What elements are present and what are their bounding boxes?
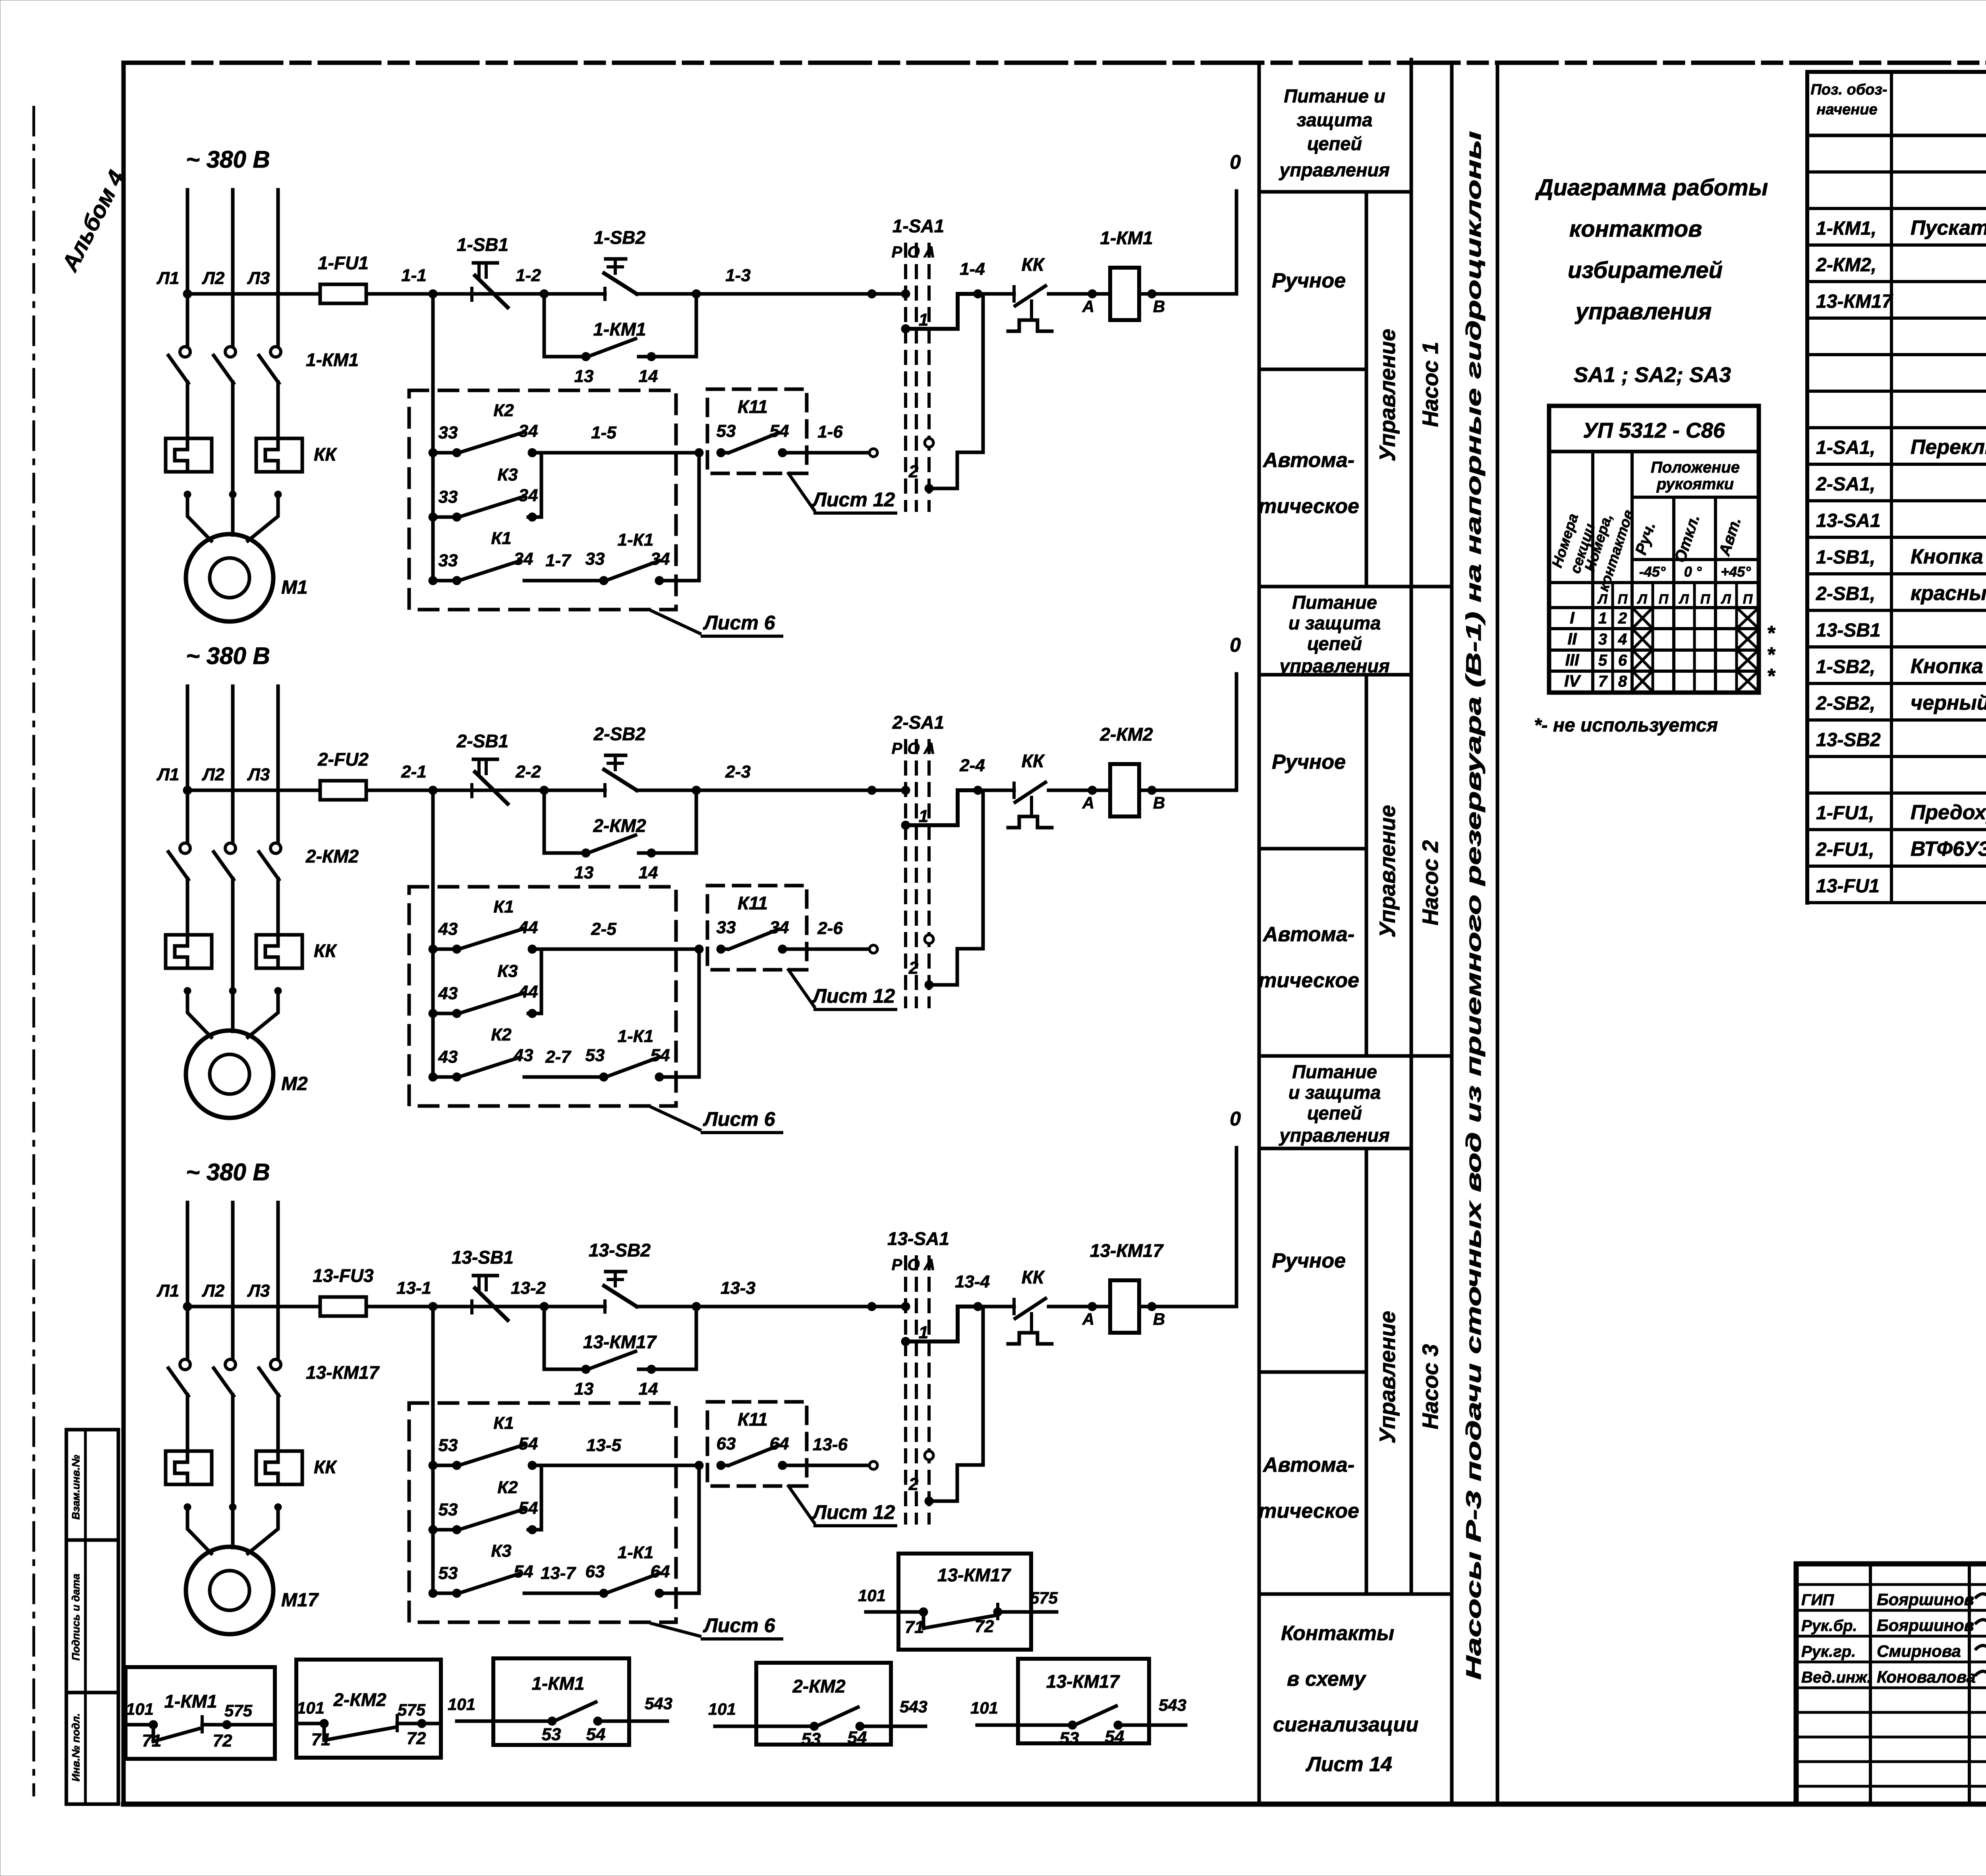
relay contact box 2-КМ2 NO 53/54	[708, 1663, 927, 1749]
svg-text:13-6: 13-6	[813, 1435, 848, 1454]
svg-text:I: I	[1570, 608, 1575, 627]
cell label: Автоматическое (pump 1)	[1258, 449, 1359, 518]
selector contact path level 1 (circuit 2)	[908, 790, 978, 825]
parts table grid	[1807, 72, 1986, 903]
svg-text:0: 0	[1230, 151, 1241, 173]
svg-text:7: 7	[1598, 673, 1608, 690]
svg-text:2-SB2,: 2-SB2,	[1816, 693, 1875, 714]
svg-text:13: 13	[574, 1379, 594, 1399]
svg-text:рукоятки: рукоятки	[1656, 475, 1734, 493]
svg-text:Л: Л	[1636, 592, 1647, 607]
wire phase L1 (circuit 2)	[186, 686, 189, 935]
svg-text:13-2: 13-2	[511, 1278, 546, 1298]
thermal relay KK heaters (circuit 1)	[166, 438, 337, 472]
contactor coil 2-КМ2 (circuit 2)	[1099, 724, 1153, 816]
svg-text:М1: М1	[281, 577, 308, 598]
relay contact box 13-КМ17 NO 53/54	[970, 1659, 1186, 1748]
svg-text:цепей: цепей	[1307, 633, 1362, 654]
svg-text:1-SB2,: 1-SB2,	[1816, 656, 1875, 677]
svg-text:13-7: 13-7	[541, 1563, 577, 1583]
svg-text:0: 0	[1230, 1108, 1241, 1130]
svg-text:1-КМ1: 1-КМ1	[593, 319, 646, 340]
node L1 (circuit 1)	[156, 268, 192, 298]
svg-text:Насос 2: Насос 2	[1418, 840, 1443, 926]
wire to neutral 0 (circuit 13)	[1235, 1148, 1238, 1307]
band column line x2	[1450, 63, 1454, 1804]
svg-text:2-КМ2,: 2-КМ2,	[1816, 255, 1876, 276]
wire 13-6 to selector (circuit 13)	[807, 1435, 877, 1469]
svg-text:44: 44	[518, 982, 538, 1002]
svg-text:1-SB1,: 1-SB1,	[1816, 547, 1875, 568]
svg-text:0 °: 0 °	[1684, 564, 1702, 580]
svg-text:Управление: Управление	[1375, 805, 1400, 938]
svg-text:Р: Р	[892, 243, 902, 261]
svg-text:2-SB1,: 2-SB1,	[1816, 583, 1875, 604]
svg-text:1-FU1: 1-FU1	[318, 253, 369, 273]
node L2 (circuit 2)	[202, 765, 225, 784]
button 2-SB1 (circuit 2)	[456, 731, 508, 804]
contactor 13-КМ17 main contacts (circuit 13)	[168, 1359, 380, 1396]
svg-text:101: 101	[297, 1698, 325, 1717]
band column left border	[1258, 63, 1261, 1804]
svg-text:Л1: Л1	[156, 765, 180, 784]
svg-text:М17: М17	[281, 1590, 319, 1611]
svg-text:13-1: 13-1	[396, 1278, 431, 1298]
junction dots below heaters (circuit 13)	[184, 1504, 282, 1511]
svg-text:43: 43	[438, 919, 458, 939]
cell label: Питание и защита цепей управления (pump 1)	[1279, 85, 1390, 180]
svg-text:В: В	[1153, 1310, 1165, 1328]
svg-text:13-КМ17: 13-КМ17	[1090, 1240, 1164, 1261]
svg-text:Бояршинов: Бояршинов	[1877, 1590, 1974, 1609]
svg-text:Лист 12: Лист 12	[812, 985, 895, 1007]
svg-text:54: 54	[519, 1434, 538, 1453]
reference label Лист 12 (circuit 2)	[788, 970, 896, 1009]
svg-text:К3: К3	[491, 1541, 512, 1561]
svg-text:1-7: 1-7	[545, 551, 572, 570]
svg-text:Пускатель магнитный: Пускатель магнитный	[1911, 216, 1986, 239]
reference label Лист 12 (circuit 1)	[788, 473, 896, 513]
svg-text:2-КМ2: 2-КМ2	[593, 815, 646, 836]
cell label: Управление (pump 3)	[1375, 1311, 1400, 1444]
wire to neutral 0 (circuit 2)	[1235, 674, 1238, 790]
motor М2 (circuit 2)	[186, 1031, 308, 1118]
svg-text:2-SB2: 2-SB2	[593, 724, 646, 744]
selector contact path level 2 (circuit 13)	[929, 1307, 983, 1501]
svg-text:*- не используется: *- не используется	[1534, 715, 1718, 736]
stamp box Инв. № подл.	[66, 1693, 118, 1804]
svg-text:1-SB2: 1-SB2	[594, 227, 646, 248]
svg-text:13-SB2: 13-SB2	[589, 1240, 651, 1260]
svg-text:2-FU1,: 2-FU1,	[1816, 839, 1874, 860]
svg-text:Диаграмма работы: Диаграмма работы	[1535, 175, 1768, 201]
svg-text:Питание и: Питание и	[1284, 85, 1385, 106]
svg-text:SA1 ; SA2; SA3: SA1 ; SA2; SA3	[1574, 363, 1731, 387]
relay contact box 2-КМ2 NC 71/72	[296, 1660, 441, 1758]
svg-text:К11: К11	[738, 893, 768, 913]
svg-text:Ручное: Ручное	[1272, 1249, 1346, 1272]
parts table rows text	[1816, 179, 1986, 897]
interlock contact К1 row1 (circuit 13)	[429, 1413, 703, 1470]
svg-text:П: П	[1618, 592, 1628, 607]
svg-text:575: 575	[398, 1700, 426, 1719]
svg-text:2-SA1: 2-SA1	[892, 712, 944, 733]
svg-text:Л2: Л2	[202, 1281, 225, 1301]
contactor coil 13-КМ17 (circuit 13)	[1090, 1240, 1164, 1333]
svg-text:Л1: Л1	[156, 268, 180, 288]
title block signatures	[1801, 1590, 1986, 1686]
svg-text:1-5: 1-5	[591, 423, 616, 442]
node 2-2 (circuit 2)	[515, 762, 549, 795]
thermal relay KK trip contact (circuit 1)	[1008, 254, 1052, 331]
svg-text:2-КМ2: 2-КМ2	[792, 1676, 845, 1697]
svg-text:Подпись и дата: Подпись и дата	[70, 1574, 82, 1661]
svg-text:цепей: цепей	[1307, 1102, 1362, 1123]
svg-text:Автома-: Автома-	[1262, 1453, 1354, 1476]
svg-text:34: 34	[770, 918, 789, 937]
cell label: Насос 1	[1418, 342, 1443, 427]
svg-text:543: 543	[1159, 1696, 1186, 1714]
svg-text:4: 4	[1618, 631, 1627, 648]
interlock contact К1 row1 (circuit 2)	[429, 897, 703, 953]
svg-text:71: 71	[311, 1730, 331, 1749]
svg-text:в схему: в схему	[1287, 1668, 1367, 1691]
svg-text:А: А	[923, 1256, 935, 1274]
svg-text:Контакты: Контакты	[1281, 1622, 1394, 1645]
svg-text:А: А	[1082, 1310, 1094, 1328]
svg-text:КК: КК	[314, 940, 337, 961]
node L1 (circuit 2)	[156, 765, 192, 795]
button 2-SB2 (circuit 2)	[593, 724, 646, 796]
svg-text:К3: К3	[497, 961, 518, 981]
interlock contacts К1 and 1-К1 row3 (circuit 1)	[429, 453, 699, 585]
svg-text:Управление: Управление	[1375, 329, 1400, 461]
dashed box (Лист 6) interlock contacts (circuit 2)	[409, 887, 676, 1106]
svg-text:К3: К3	[497, 465, 518, 484]
wire phase L3 (circuit 1)	[276, 190, 280, 438]
dashed box К11 contact (circuit 1)	[707, 389, 807, 473]
svg-text:тическое: тическое	[1258, 1500, 1359, 1523]
auxiliary self-hold contact 1-КМ1 (circuit 1)	[544, 290, 701, 386]
motor feed wires (circuit 1)	[187, 494, 278, 541]
svg-text:Кнопка КЕ011УЗ, исп.4, толкате: Кнопка КЕ011УЗ, исп.4, толкатель	[1911, 655, 1986, 678]
interlock contacts К2 and 1-К1 row3 (circuit 2)	[429, 949, 699, 1081]
svg-text:1-1: 1-1	[401, 266, 427, 285]
svg-text:П: П	[1743, 592, 1753, 607]
svg-text:~ 380 В: ~ 380 В	[186, 1159, 270, 1185]
svg-text:О: О	[907, 740, 920, 757]
cell label: Питание и защита цепей управления (pump 2)	[1279, 592, 1390, 676]
svg-text:К2: К2	[493, 401, 514, 420]
svg-text:и защита: и защита	[1289, 612, 1381, 633]
svg-text:КК: КК	[1022, 751, 1045, 771]
svg-text:2-2: 2-2	[515, 762, 541, 782]
svg-text:сигнализации: сигнализации	[1273, 1713, 1418, 1736]
svg-text:53: 53	[1060, 1729, 1079, 1748]
svg-text:1-4: 1-4	[960, 259, 985, 279]
node 13-2 (circuit 13)	[511, 1278, 549, 1311]
selector switch 13-SA1 (circuit 13)	[887, 1228, 949, 1523]
svg-text:2: 2	[1618, 610, 1627, 627]
svg-text:Лист 14: Лист 14	[1305, 1753, 1392, 1776]
svg-text:54: 54	[848, 1728, 867, 1747]
node B (circuit 2)	[1148, 786, 1165, 812]
svg-text:управления: управления	[1279, 655, 1390, 676]
svg-text:101: 101	[448, 1695, 475, 1714]
bus terminal dot before selector (circuit 13)	[867, 1302, 876, 1311]
svg-text:Насосы Р-3 подачи сточных вод: Насосы Р-3 подачи сточных вод из приемно…	[1462, 131, 1486, 1680]
node 1-2 (circuit 1)	[516, 266, 549, 298]
node L3 (circuit 2)	[247, 765, 270, 784]
node 2-1 (circuit 2)	[401, 762, 437, 795]
svg-text:34: 34	[514, 549, 533, 569]
svg-text:3: 3	[1598, 631, 1607, 648]
svg-text:34: 34	[519, 421, 538, 441]
selector contact path level 2 (circuit 1)	[929, 294, 983, 488]
svg-text:53: 53	[717, 421, 736, 441]
fuse 1-FU1 (circuit 1)	[318, 253, 369, 303]
thermal relay KK trip contact (circuit 2)	[1008, 751, 1052, 828]
junction dots below heaters (circuit 1)	[184, 491, 282, 498]
svg-text:КК: КК	[314, 1457, 337, 1477]
interlock contacts К3 and 1-К1 row3 (circuit 13)	[429, 1465, 699, 1598]
svg-text:575: 575	[224, 1701, 253, 1720]
svg-text:II: II	[1567, 629, 1577, 648]
cell: Контакты в схему сигнализации лист 14	[1259, 1594, 1452, 1776]
svg-text:Лист 12: Лист 12	[812, 488, 895, 511]
wire phase L1 (circuit 1)	[186, 190, 189, 438]
album note: Альбом 4	[56, 166, 129, 276]
stamp box Взам. инв. №	[66, 1430, 118, 1540]
control bus wire (circuit 13)	[187, 1305, 1236, 1309]
svg-text:Л: Л	[1597, 592, 1607, 607]
svg-text:П: П	[1700, 592, 1711, 607]
svg-text:13-SB2: 13-SB2	[1816, 730, 1881, 751]
svg-text:Питание: Питание	[1292, 1061, 1377, 1082]
svg-text:33: 33	[439, 551, 458, 570]
terminal 0 label (circuit 2)	[1230, 634, 1241, 656]
junction dots below heaters (circuit 2)	[184, 987, 282, 994]
svg-text:72: 72	[407, 1729, 426, 1748]
heading: SA1 ; SA2; SA3	[1574, 363, 1731, 387]
svg-text:контактов: контактов	[1569, 216, 1702, 242]
svg-text:543: 543	[645, 1694, 672, 1713]
wire phase L3 (circuit 2)	[276, 686, 280, 935]
svg-text:1-2: 1-2	[516, 266, 541, 285]
button 1-SB2 (circuit 1)	[594, 227, 646, 299]
node 2-4 (circuit 2)	[959, 756, 985, 795]
svg-text:ВТФ6УЗ, ТУ16- 521, 037-75: ВТФ6УЗ, ТУ16- 521, 037-75	[1911, 838, 1986, 861]
svg-text:Л: Л	[1678, 592, 1689, 607]
svg-text:54: 54	[514, 1562, 533, 1581]
node A (circuit 2)	[1082, 786, 1097, 812]
svg-text:1: 1	[919, 310, 928, 330]
svg-text:2-КМ2: 2-КМ2	[305, 846, 359, 867]
wire SB1 to node 1-2 (circuit 1)	[505, 292, 544, 296]
motor М1 (circuit 1)	[186, 534, 308, 621]
svg-text:2-7: 2-7	[545, 1047, 572, 1067]
thermal relay KK heaters (circuit 13)	[166, 1451, 337, 1484]
svg-text:А: А	[1082, 793, 1094, 812]
auxiliary self-hold contact 13-КМ17 (circuit 13)	[544, 1302, 701, 1399]
reference label Лист 12 (circuit 13)	[788, 1486, 896, 1526]
svg-text:Насос 1: Насос 1	[1418, 342, 1443, 427]
svg-text:63: 63	[717, 1434, 736, 1453]
svg-text:13-SB1: 13-SB1	[1816, 620, 1881, 641]
node A (circuit 13)	[1082, 1302, 1097, 1328]
dashed box (Лист 6) interlock contacts (circuit 13)	[409, 1403, 676, 1622]
svg-text:71: 71	[142, 1731, 162, 1751]
reference label Лист 6 (circuit 13)	[651, 1614, 782, 1639]
svg-text:0: 0	[1230, 634, 1241, 656]
power source ~380V (circuit 2)	[186, 643, 270, 669]
cell label: Автоматическое (pump 3)	[1258, 1453, 1359, 1523]
svg-text:А: А	[923, 740, 935, 757]
wire to neutral 0 (circuit 1)	[1235, 191, 1238, 294]
svg-text:начение: начение	[1816, 101, 1877, 118]
svg-text:1: 1	[919, 1323, 928, 1342]
bus terminal dot before selector (circuit 2)	[867, 786, 876, 795]
svg-text:54: 54	[586, 1725, 606, 1744]
cell label: Автоматическое (pump 2)	[1258, 923, 1359, 992]
power source ~380V (circuit 1)	[186, 146, 270, 173]
svg-text:54: 54	[770, 421, 789, 441]
svg-text:1-К1: 1-К1	[618, 530, 654, 550]
contactor coil 1-КМ1 (circuit 1)	[1100, 228, 1153, 320]
wire phase L2 (circuit 13)	[231, 1202, 235, 1529]
fuse 13-FU3 (circuit 13)	[313, 1265, 374, 1316]
svg-text:2-5: 2-5	[591, 919, 616, 939]
svg-text:13-4: 13-4	[955, 1272, 990, 1291]
svg-text:33: 33	[439, 423, 458, 442]
wire drop from node 13-1 (circuit 13)	[431, 1307, 435, 1593]
svg-text:2-6: 2-6	[817, 919, 843, 938]
svg-text:Ручное: Ручное	[1272, 269, 1346, 292]
svg-text:Рук.гр.: Рук.гр.	[1801, 1643, 1856, 1660]
svg-text:1-SA1,: 1-SA1,	[1816, 437, 1875, 458]
stamp box Подпись и дата	[66, 1540, 118, 1693]
svg-text:защита: защита	[1297, 109, 1373, 130]
svg-text:О: О	[907, 243, 920, 261]
svg-text:13-КМ17: 13-КМ17	[1816, 291, 1893, 312]
bus terminal dot before selector (circuit 1)	[867, 290, 876, 298]
svg-text:и защита: и защита	[1289, 1082, 1381, 1103]
motor feed wires (circuit 2)	[187, 991, 278, 1037]
svg-text:Инв.№ подл.: Инв.№ подл.	[70, 1713, 82, 1781]
motor М17 (circuit 13)	[186, 1547, 319, 1634]
svg-text:К1: К1	[493, 897, 514, 917]
svg-text:Л2: Л2	[202, 765, 225, 784]
svg-text:А: А	[1082, 297, 1094, 316]
svg-text:КК: КК	[314, 444, 337, 465]
svg-text:34: 34	[519, 486, 538, 505]
heading: Диаграмма работы контактов избирателей управления	[1535, 175, 1768, 324]
svg-text:13-КМ17: 13-КМ17	[583, 1332, 657, 1352]
title block frame and signature grid	[1796, 1564, 1986, 1804]
svg-text:К2: К2	[491, 1025, 512, 1044]
svg-text:1-КМ1,: 1-КМ1,	[1816, 218, 1876, 239]
node B (circuit 13)	[1148, 1302, 1165, 1328]
relay contact box 1-КМ1 NO 53/54	[448, 1658, 672, 1745]
svg-text:Взам.инв.№: Взам.инв.№	[70, 1455, 82, 1519]
svg-text:34: 34	[651, 549, 670, 569]
svg-text:красный, ТУ 16-642.015-84: красный, ТУ 16-642.015-84	[1911, 582, 1986, 605]
svg-text:тическое: тическое	[1258, 495, 1359, 518]
svg-text:Питание: Питание	[1292, 592, 1377, 613]
wire SB1 to node 13-2 (circuit 13)	[505, 1305, 544, 1309]
svg-text:Смирнова: Смирнова	[1877, 1642, 1961, 1660]
svg-text:управления: управления	[1575, 299, 1712, 324]
svg-text:101: 101	[126, 1700, 154, 1718]
band column grid pump 3	[1259, 1056, 1452, 1594]
relay contact box 13-КМ17 NC 71/72	[858, 1554, 1058, 1650]
svg-text:72: 72	[213, 1731, 232, 1751]
svg-text:Р: Р	[892, 740, 902, 757]
svg-text:Насос 3: Насос 3	[1418, 1344, 1443, 1430]
svg-text:63: 63	[585, 1562, 605, 1581]
svg-text:УП 5312 - С86: УП 5312 - С86	[1583, 419, 1725, 442]
svg-text:1-К1: 1-К1	[618, 1027, 654, 1046]
svg-text:Л3: Л3	[247, 765, 270, 784]
button 13-SB2 (circuit 13)	[589, 1240, 651, 1312]
svg-text:IV: IV	[1564, 672, 1581, 690]
svg-text:*: *	[1767, 665, 1776, 688]
svg-text:2-4: 2-4	[959, 756, 985, 775]
node 1-3 wire label (circuit 1)	[725, 266, 751, 285]
svg-text:13: 13	[574, 367, 594, 386]
svg-text:2-1: 2-1	[401, 762, 427, 782]
svg-text:1-SB1: 1-SB1	[457, 234, 508, 255]
svg-text:53: 53	[802, 1729, 821, 1749]
selector contact path level 1 (circuit 13)	[908, 1307, 978, 1341]
svg-text:Лист 6: Лист 6	[703, 1614, 776, 1637]
svg-text:+45°: +45°	[1721, 564, 1751, 580]
svg-text:Лист 6: Лист 6	[703, 612, 776, 634]
svg-text:1-КМ1: 1-КМ1	[306, 349, 359, 370]
svg-text:В: В	[1153, 793, 1165, 812]
interlock contact К2 row1 (circuit 1)	[429, 401, 703, 457]
svg-text:13-5: 13-5	[586, 1436, 622, 1455]
selector switch 1-SA1 (circuit 1)	[892, 216, 945, 510]
svg-text:Л1: Л1	[156, 1281, 180, 1301]
band column right border	[1496, 63, 1499, 1804]
svg-text:П: П	[1659, 592, 1669, 607]
svg-text:33: 33	[585, 549, 605, 569]
svg-text:Вед.инж.: Вед.инж.	[1801, 1669, 1872, 1686]
reference label Лист 6 (circuit 1)	[651, 611, 782, 636]
svg-text:8: 8	[1618, 673, 1627, 690]
fuse 2-FU2 (circuit 2)	[317, 749, 369, 800]
svg-text:Р: Р	[892, 1256, 902, 1274]
wire phase L2 (circuit 1)	[231, 190, 235, 516]
svg-text:72: 72	[975, 1617, 994, 1636]
svg-text:71: 71	[905, 1617, 924, 1637]
wire drop from node 1-1 (circuit 1)	[431, 294, 435, 581]
svg-text:2-SB1: 2-SB1	[456, 731, 508, 751]
svg-text:управления: управления	[1279, 1125, 1390, 1146]
svg-text:53: 53	[585, 1046, 605, 1065]
terminal 0 label (circuit 13)	[1230, 1108, 1241, 1130]
svg-text:13-SA1: 13-SA1	[1816, 510, 1881, 531]
svg-text:13-FU1: 13-FU1	[1816, 876, 1880, 897]
terminal 0 label (circuit 1)	[1230, 151, 1241, 173]
svg-text:2: 2	[908, 462, 919, 481]
cell label: Управление (pump 2)	[1375, 805, 1400, 938]
svg-text:тическое: тическое	[1258, 969, 1359, 992]
control bus wire (circuit 2)	[187, 789, 1236, 792]
svg-text:101: 101	[858, 1586, 886, 1605]
sheet frame left border	[122, 63, 126, 1804]
